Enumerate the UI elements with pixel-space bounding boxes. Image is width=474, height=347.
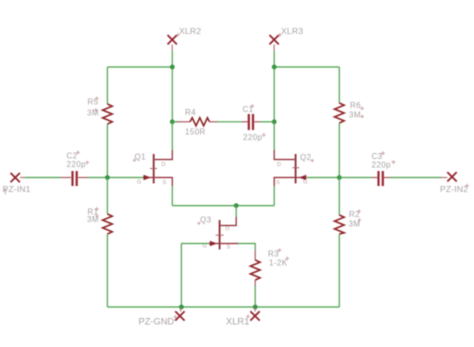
transistor Q1	[133, 150, 173, 186]
svg-text:Q2: Q2	[300, 153, 312, 162]
wire Q3 gate down to bottom rail	[181, 243, 209, 245]
svg-text:3M: 3M	[349, 220, 361, 229]
wire left mid node to R4	[172, 121, 178, 123]
resistor R2	[335, 210, 362, 235]
svg-text:PZ-IN2: PZ-IN2	[440, 184, 468, 194]
svg-text:S: S	[227, 245, 231, 251]
svg-text:D: D	[162, 162, 166, 168]
junction source rail / Q3 drain	[234, 203, 239, 208]
svg-text:D: D	[226, 226, 230, 232]
svg-text:1-2K: 1-2K	[269, 259, 288, 268]
wire Q2 source down to source rail	[273, 186, 275, 206]
wire C3 to PZ-IN2	[390, 177, 441, 179]
wire left mid node down to Q1 drain	[171, 122, 173, 150]
junction input node	[105, 175, 110, 180]
wire R4 to C1	[217, 121, 242, 123]
wire R6 to right node	[338, 123, 340, 178]
wire C2 to junction and Q1 gate	[88, 177, 143, 179]
wire R1 to bottom rail	[106, 234, 108, 307]
wire bottom rail	[107, 306, 339, 308]
junction PZ-GND node	[179, 305, 184, 310]
svg-text:R4: R4	[185, 108, 196, 117]
resistor R3	[250, 248, 289, 286]
junction left mid node	[170, 119, 175, 124]
wire C1 to right mid node	[260, 121, 274, 123]
wire top rail left	[107, 66, 172, 68]
wire Q3 source to R3	[238, 244, 255, 251]
wire XLR2 node down to mid node	[171, 67, 173, 122]
wire top rail right	[274, 66, 339, 68]
svg-text:D: D	[277, 162, 281, 168]
svg-text:PZ-IN1: PZ-IN1	[3, 184, 31, 194]
pin PZ-IN1	[3, 173, 31, 195]
svg-text:G: G	[303, 180, 307, 186]
svg-text:XLR2: XLR2	[179, 26, 201, 36]
svg-text:220p: 220p	[67, 160, 87, 169]
wire right vertical upper (top rail to R6)	[338, 67, 340, 103]
svg-text:S: S	[276, 180, 280, 186]
transistor Q2	[274, 150, 314, 186]
capacitor C3	[339, 151, 395, 186]
svg-text:G: G	[137, 180, 141, 186]
svg-text:PZ-GND: PZ-GND	[139, 317, 175, 327]
pin PZ-GND	[139, 307, 185, 326]
wire R3 to bottom rail	[254, 286, 256, 307]
svg-text:3M: 3M	[349, 111, 361, 120]
svg-text:XLR3: XLR3	[281, 26, 303, 36]
wire source rail	[172, 205, 274, 207]
wire right mid node down to Q2 drain	[273, 122, 275, 150]
junction XLR1 node	[253, 305, 258, 310]
svg-text:S: S	[163, 180, 167, 186]
wire XLR3 node down to right mid node	[273, 67, 275, 122]
capacitor C2	[61, 151, 89, 187]
wire left vertical upper (top rail to R5)	[106, 67, 108, 104]
wire Q3 drain to source rail junction	[235, 206, 237, 217]
junction XLR3 / top rail	[272, 65, 277, 70]
junction right node	[337, 175, 342, 180]
resistor R1	[87, 207, 112, 234]
svg-text:150R: 150R	[185, 128, 206, 137]
svg-text:220p: 220p	[372, 161, 392, 170]
capacitor C1	[242, 104, 266, 142]
wire R5 to input line	[106, 124, 108, 178]
wire XLR2 to top rail	[171, 51, 173, 67]
wire Q2 gate to right node	[306, 177, 339, 179]
wire right node down to R2	[338, 178, 340, 216]
junction right mid node	[272, 119, 277, 124]
svg-text:R6: R6	[350, 101, 361, 110]
wire gate vertical	[180, 244, 182, 308]
svg-text:Q3: Q3	[200, 216, 212, 225]
svg-text:Q1: Q1	[135, 153, 147, 162]
pin XLR2	[168, 26, 202, 51]
pin XLR1	[226, 307, 260, 326]
resistor R6	[335, 101, 365, 123]
wire XLR3 to top rail	[273, 51, 275, 67]
wire PZ-IN1 to C2	[25, 177, 61, 179]
resistor R5	[87, 97, 112, 125]
junction XLR2 / top rail	[170, 65, 175, 70]
svg-text:220p: 220p	[243, 133, 263, 142]
svg-text:XLR1: XLR1	[226, 317, 249, 327]
transistor Q3	[197, 216, 238, 251]
wire R2 to bottom rail	[338, 234, 340, 307]
svg-text:G: G	[203, 244, 207, 250]
wire input junction down to R1	[106, 178, 108, 215]
svg-text:R3: R3	[268, 250, 279, 259]
pin XLR3	[269, 26, 303, 51]
pin PZ-IN2	[440, 172, 469, 194]
resistor R4	[177, 108, 218, 137]
wire Q1 source down to source rail	[171, 186, 173, 206]
